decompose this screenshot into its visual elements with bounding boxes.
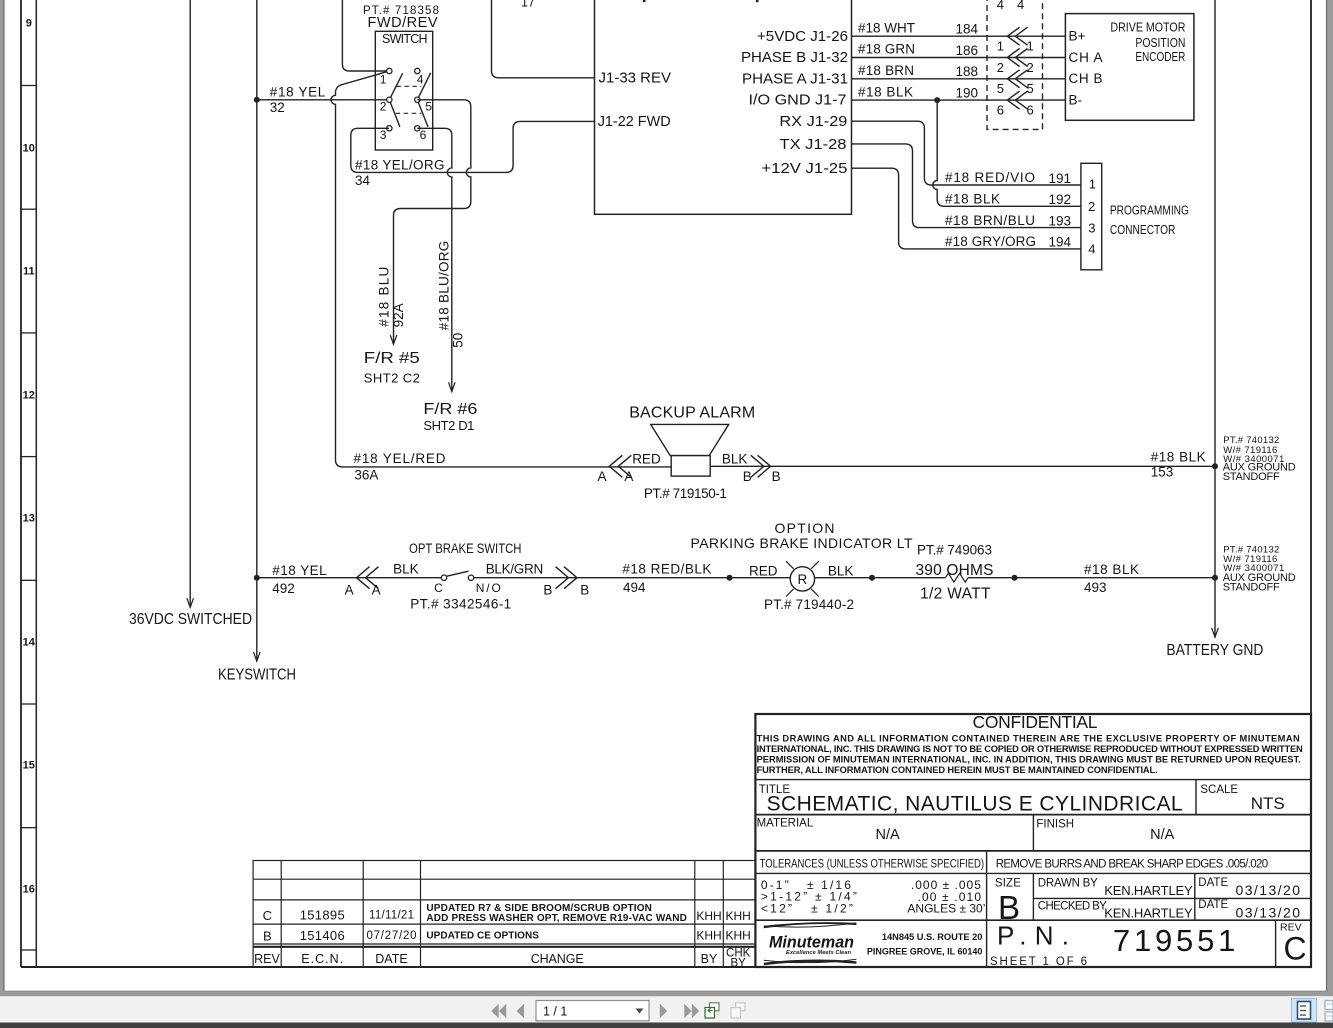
- svg-text:RED: RED: [749, 564, 778, 579]
- svg-text:INTERNATIONAL, INC. THIS DRAWI: INTERNATIONAL, INC. THIS DRAWING IS NOT …: [757, 744, 1303, 754]
- arrow F/R #5: [390, 335, 397, 344]
- svg-text:THIS DRAWING AND ALL INFORMATI: THIS DRAWING AND ALL INFORMATION CONTAIN…: [757, 734, 1300, 744]
- svg-text:1: 1: [380, 73, 387, 87]
- wire #18 BRN 188 row: [852, 78, 1066, 80]
- crimp splice row2 chevrons: [1007, 49, 1027, 67]
- svg-text:2: 2: [997, 60, 1004, 75]
- switch pin 5: [415, 97, 420, 102]
- svg-text:CHANGE: CHANGE: [531, 952, 584, 966]
- toolbar continuous view button (partial): [1325, 1001, 1333, 1022]
- svg-text:REMOVE BURRS AND BREAK SHARP E: REMOVE BURRS AND BREAK SHARP EDGES .005/…: [996, 859, 1268, 871]
- svg-text:1: 1: [1027, 39, 1034, 54]
- svg-text:A: A: [345, 583, 354, 598]
- svg-text:6: 6: [420, 128, 427, 142]
- wire #18 WHT 184 row: [852, 35, 1066, 37]
- node junction dot bus 493: [1212, 575, 1218, 581]
- svg-text:5: 5: [997, 81, 1004, 96]
- svg-text:BY: BY: [731, 957, 747, 969]
- wire pin6 to F/R #6 with hop: [417, 128, 452, 391]
- svg-text:193: 193: [1048, 213, 1071, 228]
- lamp DS1 rays: [786, 561, 819, 596]
- svg-text:J1-22 FWD: J1-22 FWD: [598, 114, 671, 130]
- svg-text:191: 191: [1048, 171, 1071, 186]
- svg-text:DRAWN BY: DRAWN BY: [1038, 878, 1098, 890]
- svg-text:DATE: DATE: [1198, 899, 1228, 911]
- connector J2 dashed outline: [987, 0, 1043, 129]
- svg-text:194: 194: [1048, 235, 1071, 250]
- switch pin 6: [415, 126, 420, 131]
- wire RX J1-29 to programming pin1: [852, 121, 1081, 185]
- svg-text:KEYSWITCH: KEYSWITCH: [218, 667, 296, 684]
- ground bus riser: [1214, 0, 1216, 637]
- svg-text:#18 GRN: #18 GRN: [858, 42, 915, 57]
- toolbar last page button: [684, 1004, 699, 1018]
- svg-text:Minuteman: Minuteman: [769, 934, 854, 952]
- svg-text:16: 16: [23, 883, 35, 895]
- wire pin5 to F/R #5 with hop: [394, 100, 471, 344]
- svg-text:B: B: [580, 583, 589, 598]
- viewer bottom dark bar: [0, 1023, 1333, 1028]
- wire TX J1-28 to programming pin3: [852, 144, 1081, 228]
- svg-text:STANDOFF: STANDOFF: [1223, 471, 1280, 483]
- svg-text:FURTHER, ALL INFORMATION CONTA: FURTHER, ALL INFORMATION CONTAINED HEREI…: [757, 765, 1158, 775]
- svg-text:PROGRAMMING: PROGRAMMING: [1110, 203, 1189, 218]
- node junction dot #18 YEL 32: [254, 97, 260, 103]
- wire #18 GRN 186 row: [852, 57, 1066, 59]
- svg-text:F/R #6: F/R #6: [423, 401, 477, 418]
- svg-text:#18 WHT: #18 WHT: [858, 20, 915, 35]
- svg-text:B: B: [743, 469, 752, 484]
- toolbar first page button: [491, 1004, 506, 1018]
- svg-text:REV: REV: [254, 952, 280, 966]
- svg-text:34: 34: [355, 173, 371, 188]
- svg-text:151406: 151406: [300, 928, 345, 943]
- svg-text:2: 2: [1027, 60, 1034, 75]
- toolbar prev page button: [517, 1004, 524, 1018]
- svg-text:184: 184: [955, 22, 978, 37]
- svg-text:12: 12: [23, 389, 35, 401]
- svg-text:B: B: [543, 583, 552, 598]
- wire 36VDC switched riser: [189, 0, 191, 608]
- svg-text:N/O: N/O: [476, 581, 501, 595]
- node junction dot lamp left: [727, 575, 733, 581]
- wire #18 YEL 492 to brake switch: [257, 577, 442, 579]
- svg-text:1: 1: [997, 39, 1004, 54]
- encoder M1 box: [1065, 14, 1194, 121]
- wire pin3 to J1-22 FWD: [351, 121, 595, 172]
- toolbar next view icon (disabled): [731, 1003, 745, 1018]
- svg-text:KEN.HARTLEY: KEN.HARTLEY: [1104, 905, 1193, 920]
- svg-text:4: 4: [1017, 0, 1024, 12]
- svg-text:PARKING BRAKE INDICATOR LT: PARKING BRAKE INDICATOR LT: [691, 535, 913, 551]
- svg-text:DATE: DATE: [1198, 877, 1228, 889]
- switch blade pin2 down: [389, 100, 400, 127]
- svg-text:SIZE: SIZE: [995, 878, 1021, 890]
- svg-text:CHECKED BY: CHECKED BY: [1038, 900, 1107, 912]
- svg-text:C: C: [434, 581, 443, 595]
- cut text remnants at top: [643, 0, 646, 2]
- sheet frame bottom border: [21, 966, 1311, 968]
- viewer toolbar background: [0, 996, 1333, 1022]
- lamp DS1 circle: [790, 567, 814, 591]
- svg-text:PT.# 719440-2: PT.# 719440-2: [764, 597, 854, 612]
- svg-text:BACKUP ALARM: BACKUP ALARM: [629, 405, 755, 422]
- svg-text:KHH: KHH: [696, 929, 721, 943]
- sheet frame left inner border: [35, 0, 37, 967]
- wire I/O GND to programming pin2 with hop: [933, 100, 1081, 206]
- svg-text:FINISH: FINISH: [1036, 819, 1074, 831]
- toolbar page number box: [536, 1001, 649, 1021]
- svg-text:11: 11: [23, 265, 35, 277]
- svg-text:#18 BLK: #18 BLK: [1084, 562, 1139, 577]
- crimp splice row1 chevrons: [1007, 27, 1027, 45]
- svg-text:B-: B-: [1069, 93, 1083, 108]
- svg-text:BATTERY GND: BATTERY GND: [1166, 642, 1263, 659]
- svg-text:DRIVE MOTOR: DRIVE MOTOR: [1110, 20, 1185, 35]
- switch S2 brake blade: [447, 571, 469, 576]
- svg-text:5: 5: [425, 100, 432, 114]
- alarm LS1 body: [671, 456, 710, 477]
- svg-text:1 / 1: 1 / 1: [543, 1005, 567, 1019]
- svg-text:2: 2: [380, 100, 387, 114]
- svg-text:BLK: BLK: [828, 564, 854, 579]
- svg-text:494: 494: [623, 580, 646, 595]
- svg-text:186: 186: [955, 43, 978, 58]
- svg-text:NTS: NTS: [1251, 794, 1285, 813]
- arrow battery gnd: [1212, 628, 1219, 637]
- svg-text:CH B: CH B: [1069, 71, 1103, 86]
- svg-text:+12V J1-25: +12V J1-25: [761, 161, 847, 177]
- svg-text:1: 1: [1089, 177, 1096, 192]
- svg-text:KEN.HARTLEY: KEN.HARTLEY: [1104, 883, 1193, 898]
- title block frame: [755, 714, 1311, 967]
- svg-text:PERMISSION OF MINUTEMAN INTERN: PERMISSION OF MINUTEMAN INTERNATIONAL, I…: [757, 755, 1301, 765]
- svg-text:190: 190: [955, 86, 978, 101]
- svg-text:ENCODER: ENCODER: [1135, 49, 1185, 64]
- svg-text:#18 BLK: #18 BLK: [945, 192, 1000, 207]
- svg-text:#18 YEL/ORG: #18 YEL/ORG: [355, 157, 445, 172]
- svg-text:PINGREE GROVE, IL 60140: PINGREE GROVE, IL 60140: [867, 946, 983, 956]
- svg-text:CH A: CH A: [1069, 50, 1103, 65]
- svg-text:B+: B+: [1069, 29, 1086, 44]
- arrow 36VDC switched: [187, 598, 194, 607]
- svg-text:POSITION: POSITION: [1135, 35, 1185, 50]
- svg-text:J1-33 REV: J1-33 REV: [599, 71, 672, 87]
- svg-text:188: 188: [955, 64, 978, 79]
- wire +12V J1-25 to programming pin4: [852, 168, 1081, 249]
- svg-text:151895: 151895: [300, 908, 345, 923]
- svg-text:6: 6: [997, 103, 1004, 118]
- logo minuteman swoosh bottom: [764, 960, 857, 966]
- svg-text:4: 4: [1088, 242, 1095, 257]
- switch mechanical link dashed upper: [396, 85, 421, 87]
- connector J3 programming box: [1081, 163, 1102, 269]
- svg-text:SCALE: SCALE: [1200, 784, 1238, 796]
- switch pin 1: [387, 68, 392, 73]
- switch S2 contact N/O: [468, 575, 473, 580]
- svg-text:6: 6: [1027, 103, 1034, 118]
- svg-text:#18 YEL/RED: #18 YEL/RED: [354, 451, 446, 466]
- svg-text:R: R: [798, 572, 808, 587]
- sheet frame left outer border: [20, 0, 22, 967]
- svg-text:A: A: [624, 469, 633, 484]
- svg-text:#18 BRN: #18 BRN: [858, 63, 914, 78]
- wire alarm BLK to ground bus: [710, 465, 1215, 467]
- svg-text:9: 9: [26, 18, 32, 30]
- wire resistor to ground bus: [968, 577, 1215, 579]
- wire keyswitch riser: [256, 0, 258, 661]
- arrow F/R #6: [449, 382, 456, 391]
- wire lamp to resistor: [815, 577, 946, 579]
- toolbar single page view button (selected): [1292, 999, 1317, 1023]
- svg-text:#18 RED/VIO: #18 RED/VIO: [945, 170, 1035, 185]
- svg-text:4: 4: [417, 73, 424, 87]
- switch pin 3: [387, 126, 392, 131]
- svg-text:<12” ± 1/2”: <12” ± 1/2”: [761, 901, 853, 915]
- revision table frame: [253, 861, 755, 968]
- svg-text:OPT BRAKE SWITCH: OPT BRAKE SWITCH: [409, 541, 522, 556]
- svg-text:TOLERANCES (UNLESS OTHERWISE S: TOLERANCES (UNLESS OTHERWISE SPECIFIED): [760, 859, 985, 871]
- svg-text:N/A: N/A: [1150, 827, 1175, 843]
- svg-text:SWITCH: SWITCH: [382, 32, 428, 46]
- toolbar previous view icon: [705, 1003, 719, 1018]
- svg-text:92A: 92A: [391, 303, 406, 327]
- svg-text:BLK: BLK: [393, 562, 419, 577]
- svg-text:192: 192: [1048, 192, 1071, 207]
- svg-text:10: 10: [23, 142, 35, 154]
- switch blade pin5 up: [417, 73, 430, 100]
- svg-text:2: 2: [1088, 199, 1095, 214]
- svg-text:DATE: DATE: [375, 952, 407, 966]
- svg-text:#18 YEL: #18 YEL: [270, 84, 326, 99]
- svg-text:C: C: [263, 908, 272, 923]
- switch blade pin2 up: [389, 73, 402, 100]
- crimp splice row3 chevrons: [1007, 70, 1027, 88]
- crimp splice row4 chevrons: [1007, 91, 1027, 109]
- wire pin1 diagonal to YEL/RED riser with hop: [331, 71, 671, 467]
- svg-text:PT.# 3342546-1: PT.# 3342546-1: [410, 597, 511, 612]
- svg-text:KHH: KHH: [726, 929, 751, 943]
- svg-text:PT.# 719150-1: PT.# 719150-1: [644, 486, 727, 501]
- svg-text:#18 BLK: #18 BLK: [858, 84, 913, 99]
- svg-text:A: A: [372, 583, 381, 598]
- svg-text:03/13/20: 03/13/20: [1236, 882, 1301, 898]
- svg-text:BY: BY: [701, 952, 718, 966]
- node junction dot lamp right: [869, 575, 875, 581]
- viewer chrome: gray strip below page: [0, 991, 1333, 996]
- svg-text:CONFIDENTIAL: CONFIDENTIAL: [973, 712, 1098, 732]
- wire #18 BLK 190 row: [852, 99, 1066, 101]
- sheet frame right border: [1310, 0, 1312, 967]
- svg-text:Excellence Meets Clean: Excellence Meets Clean: [786, 950, 852, 956]
- svg-text:14: 14: [23, 636, 36, 648]
- svg-text:50: 50: [451, 333, 466, 348]
- svg-text:5: 5: [1027, 81, 1034, 96]
- svg-text:RX J1-29: RX J1-29: [779, 114, 847, 130]
- svg-text:PT.# 749063: PT.# 749063: [917, 543, 992, 558]
- svg-text:493: 493: [1084, 580, 1107, 595]
- connector B chevrons alarm: [751, 455, 771, 477]
- svg-text:SHEET 1 OF 6: SHEET 1 OF 6: [990, 956, 1087, 968]
- toolbar next page button: [660, 1004, 667, 1018]
- zone ticks left margin: [21, 86, 36, 951]
- svg-text:1/2 WATT: 1/2 WATT: [920, 586, 991, 603]
- switch pin 4: [415, 68, 420, 73]
- node junction dot brake row keyswitch: [254, 575, 260, 581]
- svg-text:E.C.N.: E.C.N.: [301, 952, 343, 966]
- svg-text:15: 15: [23, 759, 35, 771]
- svg-text:SHT2 D1: SHT2 D1: [423, 418, 474, 433]
- confidential paragraph: [757, 734, 1303, 776]
- switch S2 contact C: [441, 575, 446, 580]
- svg-text:PHASE A J1-31: PHASE A J1-31: [742, 71, 848, 87]
- svg-text:13: 13: [23, 512, 35, 524]
- svg-text:+5VDC J1-26: +5VDC J1-26: [757, 29, 848, 45]
- svg-text:B: B: [772, 469, 781, 484]
- svg-text:#18 BRN/BLU: #18 BRN/BLU: [945, 213, 1035, 228]
- node junction dot bus 153: [1212, 463, 1218, 469]
- svg-text:UPDATED CE OPTIONS: UPDATED CE OPTIONS: [426, 931, 539, 942]
- connector A chevrons brake: [357, 567, 379, 589]
- wire #18 YEL 32: [257, 99, 390, 101]
- svg-text:32: 32: [270, 100, 285, 115]
- node junction dot after resistor: [1012, 575, 1018, 581]
- svg-text:SHT2 C2: SHT2 C2: [364, 371, 420, 386]
- arrow keyswitch: [254, 652, 261, 661]
- svg-text:F/R #5: F/R #5: [364, 350, 420, 367]
- svg-text:KHH: KHH: [726, 909, 751, 923]
- svg-text:I/O GND J1-7: I/O GND J1-7: [749, 93, 847, 109]
- zone numbers left margin: [23, 18, 36, 896]
- svg-text:FWD/REV: FWD/REV: [368, 15, 438, 31]
- svg-text:#18 YEL: #18 YEL: [272, 563, 327, 578]
- svg-text:14N845 U.S. ROUTE 20: 14N845 U.S. ROUTE 20: [882, 932, 983, 942]
- svg-text:C: C: [1284, 931, 1307, 967]
- svg-text:03/13/20: 03/13/20: [1236, 904, 1301, 920]
- svg-text:N/A: N/A: [876, 827, 901, 843]
- svg-text:ADD PRESS WASHER OPT, REMOVE R: ADD PRESS WASHER OPT, REMOVE R19-VAC WAN…: [426, 913, 687, 924]
- logo minuteman swoosh top: [764, 922, 857, 928]
- svg-text:A: A: [598, 469, 607, 484]
- wire brake switch to lamp: [474, 577, 790, 579]
- svg-text:PHASE B J1-32: PHASE B J1-32: [741, 50, 848, 66]
- svg-text:ANGLES ± 30’: ANGLES ± 30’: [907, 902, 985, 916]
- svg-text:153: 153: [1151, 464, 1174, 479]
- connector B chevrons brake: [556, 567, 578, 589]
- svg-text:11/11/21: 11/11/21: [369, 910, 414, 922]
- svg-text:B: B: [263, 928, 272, 943]
- svg-text:17: 17: [521, 0, 535, 10]
- svg-text:OPTION: OPTION: [775, 520, 835, 536]
- svg-text:07/27/20: 07/27/20: [367, 930, 417, 942]
- svg-text:TX J1-28: TX J1-28: [780, 137, 847, 153]
- svg-text:BLK: BLK: [722, 451, 748, 466]
- svg-text:MATERIAL: MATERIAL: [757, 818, 814, 830]
- svg-text:#18 BLK: #18 BLK: [1151, 449, 1206, 464]
- controller U1 box: [595, 0, 852, 214]
- svg-text:BLK/GRN: BLK/GRN: [486, 562, 544, 577]
- svg-text:CONNECTOR: CONNECTOR: [1110, 222, 1176, 237]
- svg-text:36A: 36A: [354, 468, 378, 483]
- node junction dot I/O GND: [934, 97, 940, 103]
- svg-text:SCHEMATIC, NAUTILUS E CYLINDRI: SCHEMATIC, NAUTILUS E CYLINDRICAL: [767, 793, 1183, 816]
- svg-text:3: 3: [380, 128, 387, 142]
- switch pin 2: [387, 97, 392, 102]
- svg-text:#18 BLU/ORG: #18 BLU/ORG: [437, 241, 452, 331]
- svg-text:RED: RED: [632, 451, 661, 466]
- switch blade pin5 down: [417, 100, 428, 127]
- svg-text:#18 BLU: #18 BLU: [377, 267, 392, 327]
- svg-text:STANDOFF: STANDOFF: [1223, 582, 1280, 594]
- svg-text:4: 4: [997, 0, 1004, 12]
- resistor R1 390 ohm: [946, 573, 968, 582]
- switch S1 FWD/REV box: [375, 31, 432, 150]
- wire J1-33 REV riser: [492, 0, 595, 78]
- toolbar page box caret: [636, 1009, 644, 1014]
- alarm LS1 horn: [651, 424, 729, 455]
- svg-text:#18 GRY/ORG: #18 GRY/ORG: [945, 234, 1036, 249]
- svg-text:KHH: KHH: [696, 909, 721, 923]
- connector A chevrons alarm: [609, 455, 631, 477]
- svg-text:3: 3: [1088, 220, 1095, 235]
- wire top riser to switch pin 1: [342, 0, 389, 71]
- svg-text:#18 RED/BLK: #18 RED/BLK: [622, 561, 711, 576]
- svg-text:390 OHMS: 390 OHMS: [916, 562, 994, 579]
- switch mechanical link dashed lower: [396, 112, 422, 114]
- tolerance rows: [761, 878, 986, 916]
- svg-text:492: 492: [272, 581, 295, 596]
- svg-text:36VDC SWITCHED: 36VDC SWITCHED: [129, 611, 252, 628]
